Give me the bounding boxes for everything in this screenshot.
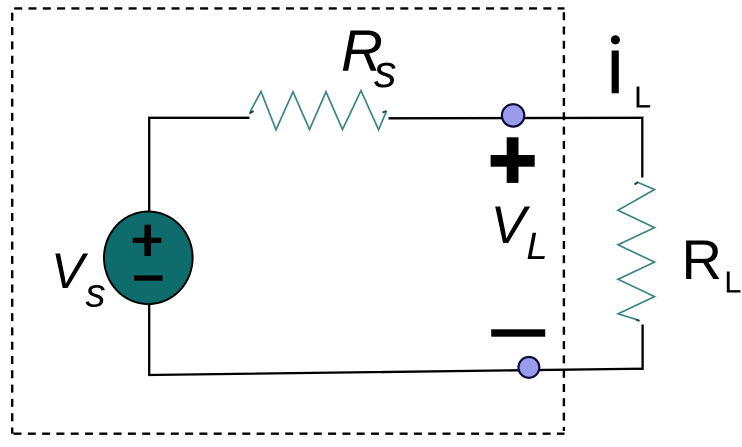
svg-text:s: s bbox=[374, 46, 397, 97]
source minus sign bbox=[134, 275, 163, 280]
Rs end tick marks bbox=[250, 111, 387, 114]
svg-text:R: R bbox=[682, 228, 722, 291]
source plus sign bbox=[133, 238, 162, 243]
svg-text:L: L bbox=[634, 80, 651, 115]
svg-text:V: V bbox=[491, 196, 531, 255]
wire from Rs to top-right corner and down to RL bbox=[389, 118, 643, 178]
wire from RL bottom to bottom rail and back to source bbox=[149, 305, 642, 376]
label iL bbox=[612, 51, 619, 94]
RL end tick marks bbox=[635, 182, 640, 321]
svg-text:L: L bbox=[724, 265, 741, 300]
resistor RL (zigzag) bbox=[618, 182, 655, 321]
load minus sign bbox=[491, 329, 545, 336]
dashed source-box border bbox=[12, 8, 564, 433]
node bottom (terminal) bbox=[519, 357, 540, 378]
node top (terminal) bbox=[502, 104, 524, 126]
svg-text:L: L bbox=[526, 226, 547, 268]
svg-text:s: s bbox=[86, 271, 106, 315]
svg-text:V: V bbox=[51, 243, 89, 299]
wire from source top to resistor Rs bbox=[149, 118, 249, 211]
resistor Rs (zigzag) bbox=[250, 91, 387, 130]
load plus sign bbox=[491, 155, 535, 167]
voltage source Vs (teal circle) bbox=[104, 211, 193, 304]
